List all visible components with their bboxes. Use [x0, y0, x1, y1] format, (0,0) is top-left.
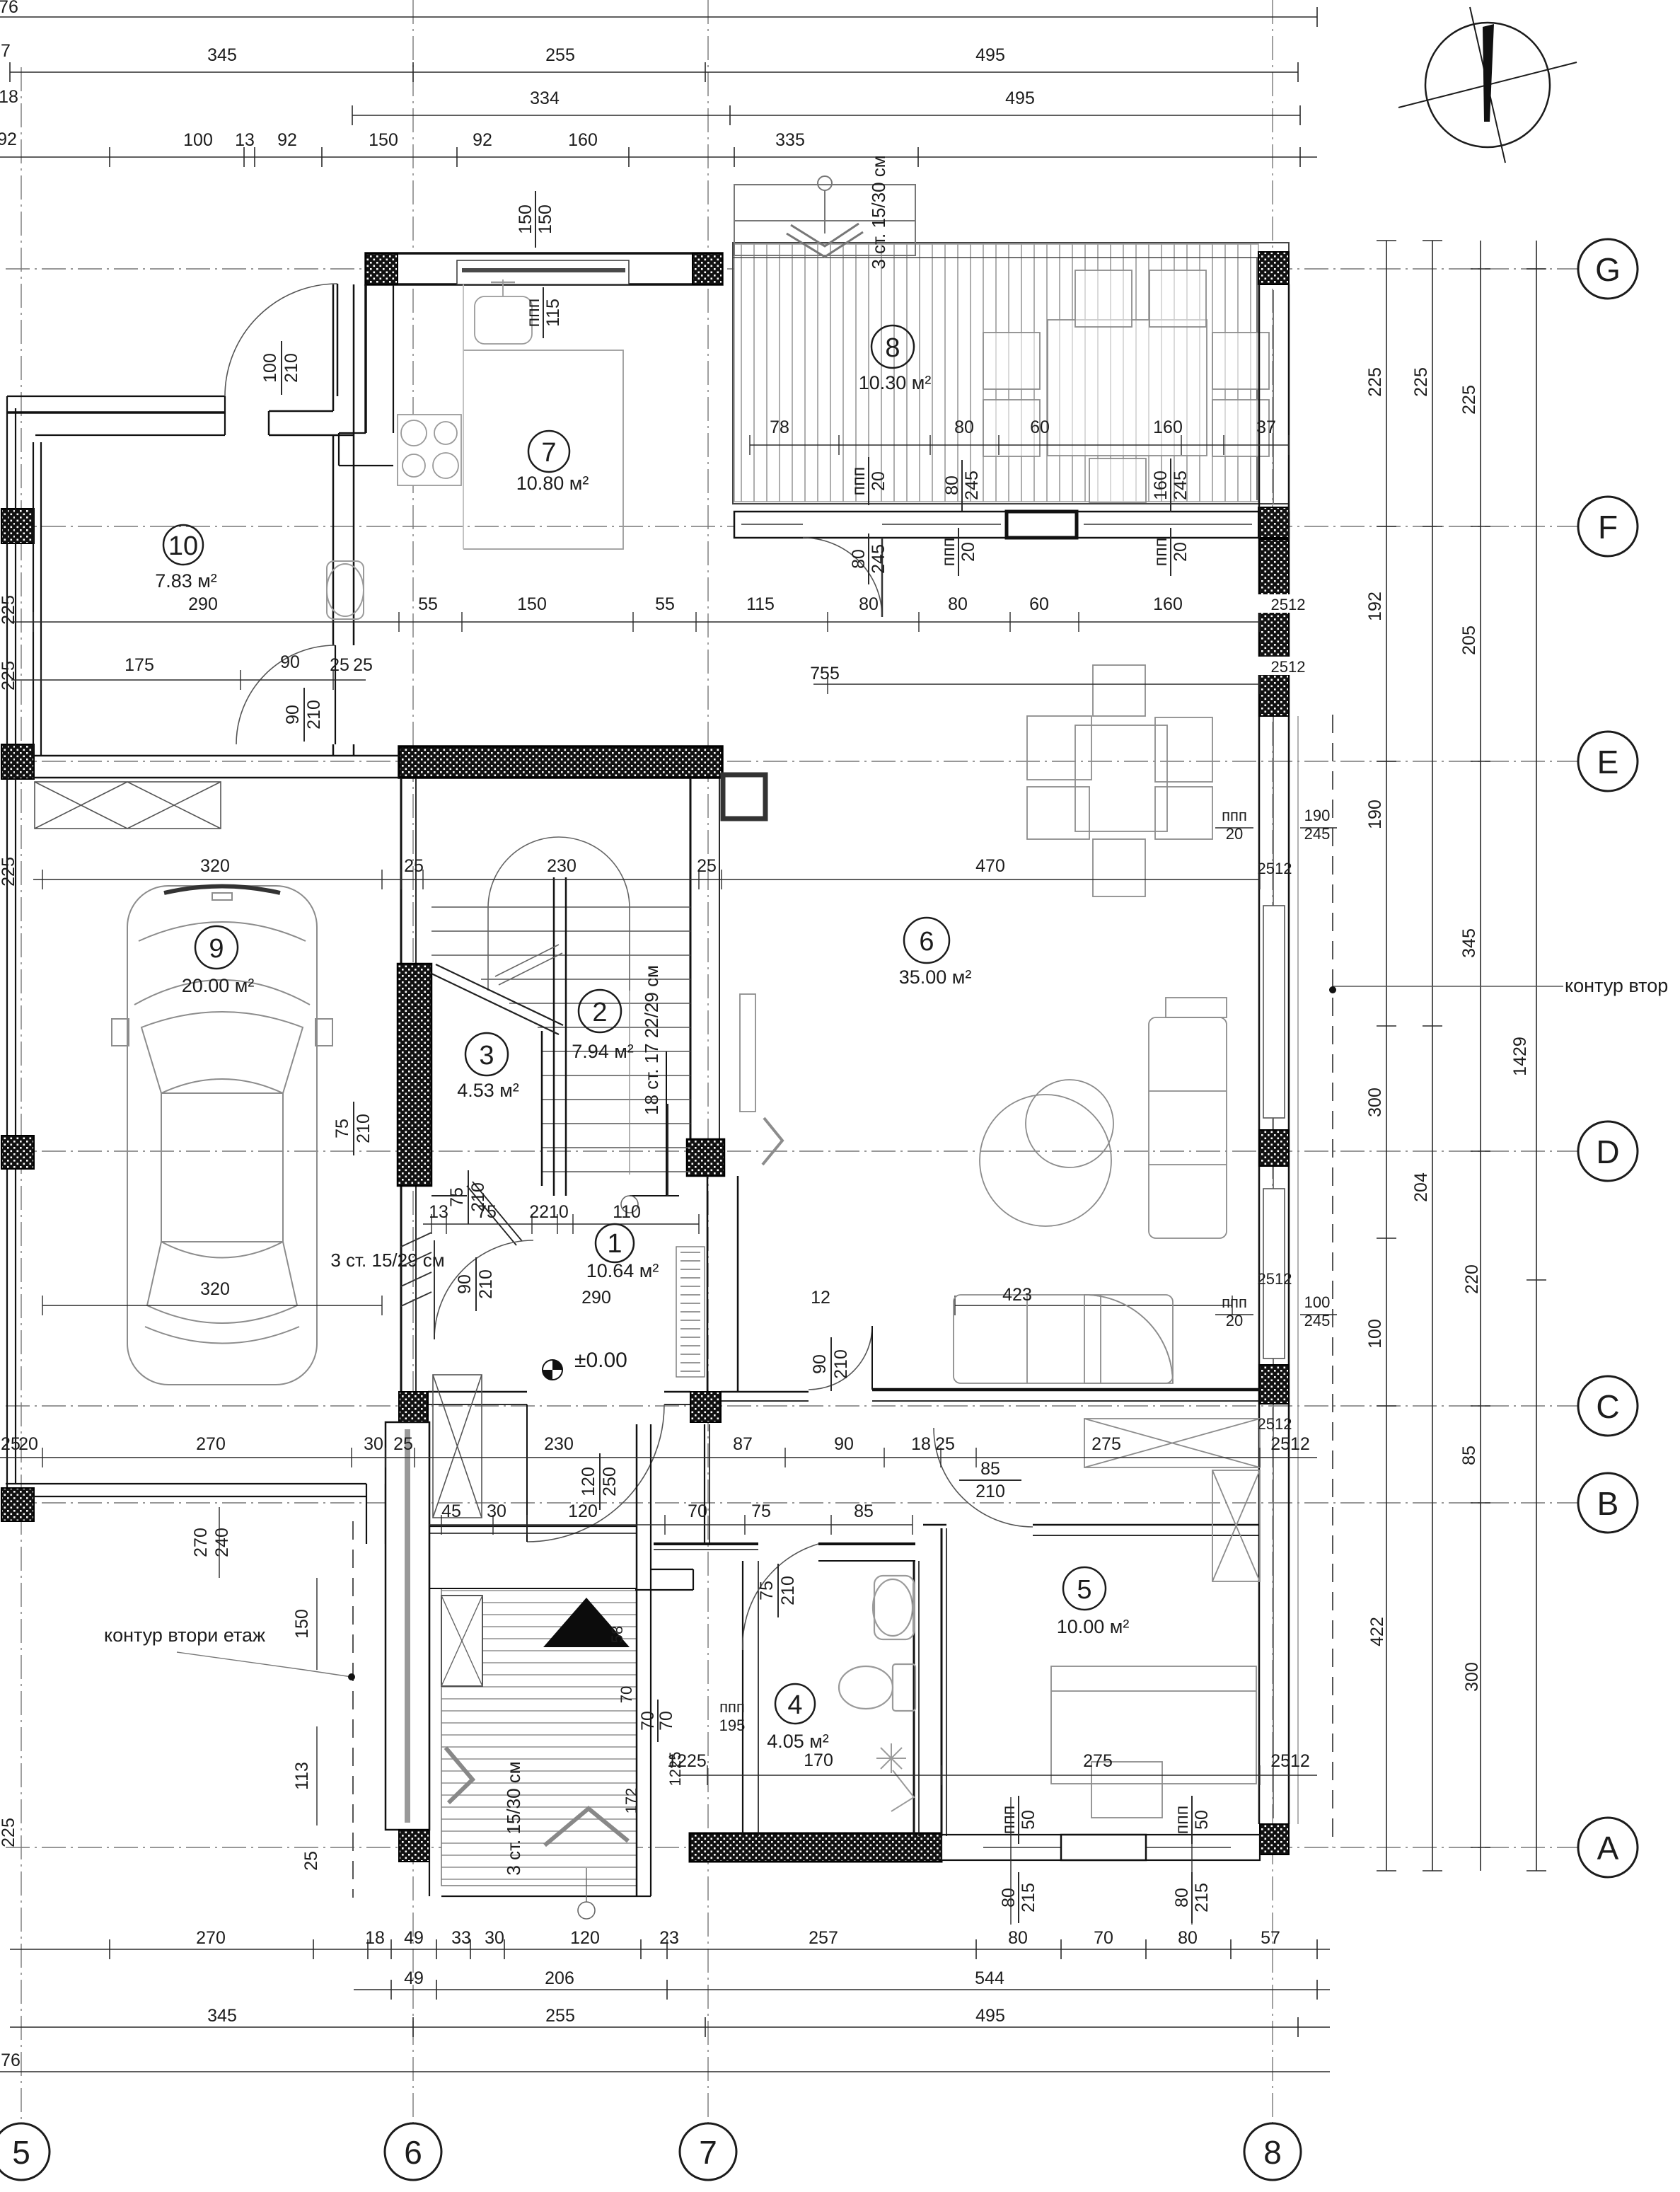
svg-text:13: 13	[429, 1202, 448, 1222]
svg-text:80: 80	[849, 549, 869, 569]
svg-text:C: C	[1596, 1388, 1619, 1425]
canopy over kitchen window	[734, 176, 915, 257]
svg-text:245: 245	[869, 544, 888, 574]
svg-text:4: 4	[787, 1690, 802, 1720]
svg-text:225: 225	[1365, 367, 1385, 397]
svg-text:120: 120	[570, 1928, 600, 1948]
svg-text:1225: 1225	[666, 1752, 684, 1787]
column C7	[690, 1392, 721, 1422]
svg-text:113: 113	[292, 1762, 312, 1790]
column B5 left	[1, 1488, 34, 1521]
svg-text:275: 275	[1083, 1751, 1113, 1771]
svg-text:ппп: ппп	[939, 538, 958, 567]
level mark ±0.00	[543, 1349, 627, 1380]
svg-text:175: 175	[124, 655, 154, 675]
garage north wall	[33, 756, 399, 778]
sofa bottom	[954, 1295, 1173, 1383]
svg-text:25: 25	[404, 856, 424, 876]
bubble C	[1578, 1376, 1638, 1436]
stair mid wall	[553, 877, 555, 1196]
svg-text:210: 210	[831, 1349, 851, 1379]
label 75/210 stair door	[447, 1170, 488, 1224]
stairwell walls	[398, 778, 738, 1392]
tv board	[740, 994, 755, 1112]
svg-text:58: 58	[608, 1626, 626, 1643]
svg-text:115: 115	[543, 299, 563, 327]
svg-text:35.00 м²: 35.00 м²	[899, 967, 972, 988]
svg-text:7: 7	[699, 2134, 717, 2171]
label 90/210 hall west door	[455, 1257, 496, 1311]
landing circle bottom	[578, 1902, 595, 1919]
east column A8	[1260, 1824, 1289, 1854]
wall B carport south	[6, 1484, 386, 1544]
svg-text:3: 3	[479, 1041, 494, 1071]
svg-text:495: 495	[975, 45, 1005, 65]
column F5 left	[1, 509, 34, 543]
kontur vtori etazh left label	[104, 1625, 355, 1680]
vent circle	[818, 176, 832, 190]
svg-text:10: 10	[168, 531, 198, 561]
wall C living south	[399, 1326, 1260, 1542]
svg-text:210: 210	[778, 1576, 798, 1605]
room 8 terrace	[871, 325, 914, 368]
terrace door arc	[803, 538, 882, 617]
east column D8	[1259, 1130, 1289, 1166]
svg-text:250: 250	[600, 1467, 620, 1496]
svg-text:225: 225	[1411, 367, 1431, 397]
sofa 423 dim	[955, 1305, 1232, 1306]
svg-text:ппп: ппп	[1172, 1806, 1192, 1835]
column A6	[399, 1830, 429, 1862]
dining chairs	[1027, 716, 1091, 780]
svg-text:320: 320	[200, 1279, 230, 1299]
svg-text:13: 13	[235, 130, 255, 150]
room3 shelf marks	[495, 945, 559, 976]
svg-text:275: 275	[1091, 1434, 1121, 1454]
svg-text:87: 87	[733, 1434, 753, 1454]
terrace window labels	[849, 457, 888, 505]
svg-text:210: 210	[282, 353, 301, 383]
axis 6 vertical	[412, 0, 414, 2123]
room4 door arc	[743, 1544, 818, 1650]
svg-text:30: 30	[364, 1434, 383, 1454]
svg-text:205: 205	[1459, 625, 1479, 655]
svg-text:2512: 2512	[1271, 658, 1306, 676]
svg-text:160: 160	[1153, 594, 1183, 614]
svg-text:80: 80	[1008, 1928, 1028, 1948]
dim row y2155	[429, 1524, 913, 1525]
corridor step walls	[651, 1569, 693, 1570]
svg-text:70: 70	[656, 1711, 676, 1731]
svg-text:ппп: ппп	[999, 1806, 1019, 1835]
svg-text:45: 45	[441, 1501, 461, 1521]
bubble E	[1578, 732, 1638, 791]
svg-text:90: 90	[283, 705, 303, 725]
axis A	[6, 1847, 1578, 1848]
svg-text:18: 18	[911, 1434, 931, 1454]
room 5	[1063, 1567, 1106, 1610]
axis E	[6, 761, 1578, 762]
room3 door leaf	[467, 1186, 516, 1245]
dim row 755 y967	[813, 683, 1260, 685]
svg-text:8: 8	[1263, 2134, 1282, 2171]
label 90/210 living door	[810, 1337, 851, 1391]
svg-text:210: 210	[476, 1269, 496, 1299]
dim row y2509	[679, 1775, 1317, 1776]
svg-text:110: 110	[613, 1202, 641, 1222]
svg-text:20: 20	[18, 1434, 38, 1454]
svg-text:3 ст. 15/29 см: 3 ст. 15/29 см	[330, 1250, 444, 1271]
crossed beam box left of entry wall	[433, 1375, 482, 1518]
svg-text:6: 6	[919, 927, 934, 957]
svg-text:2512: 2512	[1270, 1434, 1310, 1454]
dim line top row 2	[352, 115, 1300, 116]
svg-text:335: 335	[775, 130, 805, 150]
room10 sink oval	[327, 564, 364, 616]
bubble 7	[680, 2123, 736, 2180]
axis G	[6, 268, 1578, 270]
svg-text:ппп: ппп	[849, 467, 869, 496]
room3 lower partition	[667, 1104, 668, 1196]
deck plank field	[734, 244, 1258, 502]
wall F under terrace	[1, 507, 1289, 617]
svg-text:контур втор: контур втор	[1565, 975, 1668, 996]
svg-text:70: 70	[1094, 1928, 1113, 1948]
svg-text:160: 160	[1151, 471, 1171, 500]
svg-text:470: 470	[975, 856, 1005, 876]
svg-text:12: 12	[811, 1288, 830, 1308]
svg-text:25: 25	[353, 655, 373, 675]
svg-text:80: 80	[954, 417, 974, 437]
svg-text:215: 215	[1192, 1883, 1212, 1913]
coffee table circles	[980, 1095, 1111, 1226]
svg-text:92: 92	[0, 129, 17, 149]
dim line bottom row 1	[10, 1949, 1330, 1950]
svg-text:190: 190	[1304, 807, 1331, 824]
svg-text:3 ст. 15/30 см: 3 ст. 15/30 см	[503, 1761, 524, 1875]
svg-text:49: 49	[404, 1968, 424, 1988]
svg-text:50: 50	[1019, 1810, 1038, 1830]
svg-text:1: 1	[607, 1229, 622, 1259]
svg-text:2210: 2210	[529, 1202, 569, 1222]
svg-text:100: 100	[260, 353, 280, 383]
label 90/210 room10 door	[283, 688, 324, 742]
room 3	[465, 1033, 508, 1075]
svg-text:225: 225	[0, 595, 18, 625]
svg-text:92: 92	[473, 130, 492, 150]
stair west wall	[400, 778, 402, 1392]
column G8	[1258, 252, 1289, 284]
svg-text:10.30 м²: 10.30 м²	[859, 372, 932, 393]
svg-text:195: 195	[719, 1717, 746, 1734]
axis 8 vertical	[1272, 0, 1273, 2123]
svg-text:206: 206	[545, 1968, 574, 1988]
svg-text:2: 2	[592, 998, 607, 1027]
stair east wall	[690, 778, 692, 1139]
dim row D stair y1730	[423, 1223, 699, 1225]
svg-text:100: 100	[1365, 1319, 1385, 1349]
svg-text:2512: 2512	[1258, 1415, 1292, 1433]
stair arch opening	[488, 837, 630, 991]
svg-text:75: 75	[447, 1187, 467, 1207]
svg-text:ппп: ппп	[719, 1698, 745, 1716]
hatched wall A room4	[690, 1833, 942, 1862]
svg-text:18: 18	[0, 87, 18, 107]
svg-text:18 ст. 17 22/29 см: 18 ст. 17 22/29 см	[641, 965, 662, 1115]
dim row under C y2060	[0, 1457, 1317, 1458]
column D5 left	[1, 1136, 34, 1169]
toilet	[839, 1664, 915, 1711]
svg-text:225: 225	[0, 857, 18, 887]
svg-text:60: 60	[1030, 417, 1050, 437]
column G6	[366, 253, 398, 284]
svg-text:30: 30	[485, 1928, 504, 1948]
svg-text:544: 544	[975, 1968, 1004, 1988]
dim line top row 0	[0, 16, 1317, 18]
svg-text:270: 270	[196, 1928, 226, 1948]
step chevron arrow	[791, 224, 859, 246]
svg-text:50: 50	[1192, 1810, 1212, 1830]
svg-text:150: 150	[369, 130, 398, 150]
svg-text:225: 225	[0, 1434, 21, 1454]
wardrobe crossed side	[1212, 1470, 1260, 1581]
label 150/150 top	[516, 191, 555, 248]
east hatched pier F-E	[1259, 539, 1289, 716]
svg-text:270: 270	[196, 1434, 226, 1454]
svg-text:150: 150	[535, 204, 555, 234]
svg-text:33: 33	[451, 1928, 471, 1948]
room5 west wall	[941, 1528, 943, 1836]
dim line bottom row 4	[0, 2071, 1330, 2072]
svg-text:150: 150	[517, 594, 547, 614]
stair west hatched pier	[398, 964, 431, 1186]
svg-text:495: 495	[975, 2006, 1005, 2026]
axis 5 vertical	[21, 67, 22, 2123]
axis B	[6, 1502, 1578, 1504]
svg-text:37: 37	[1256, 417, 1276, 437]
svg-text:25: 25	[301, 1851, 321, 1871]
svg-text:90: 90	[810, 1354, 830, 1374]
column D7	[687, 1139, 724, 1176]
svg-text:18: 18	[365, 1928, 385, 1948]
svg-text:2512: 2512	[1258, 1270, 1292, 1288]
svg-text:B: B	[1597, 1485, 1619, 1522]
svg-text:±0.00: ±0.00	[574, 1349, 627, 1372]
terrace chairs	[983, 333, 1040, 389]
svg-text:75: 75	[757, 1581, 777, 1600]
dim line bottom row 2	[354, 1989, 1330, 1990]
bubble A	[1578, 1818, 1638, 1877]
axis bubbles bottom	[0, 2123, 1301, 2180]
bubble D	[1578, 1121, 1638, 1181]
svg-text:20: 20	[958, 542, 978, 562]
room5 north wall and door	[923, 1428, 1260, 1535]
contour right vertical	[1332, 715, 1333, 1847]
svg-text:25: 25	[935, 1434, 955, 1454]
label 75/210 room4 door	[757, 1564, 798, 1617]
black direction triangle	[543, 1598, 630, 1647]
svg-text:190: 190	[1365, 800, 1385, 829]
room4 top wall	[818, 1542, 915, 1545]
svg-text:55: 55	[655, 594, 675, 614]
room3 east wall	[541, 1031, 543, 1186]
svg-text:6: 6	[404, 2134, 422, 2171]
svg-text:75: 75	[332, 1119, 352, 1138]
svg-text:1429: 1429	[1510, 1037, 1530, 1076]
svg-text:225: 225	[0, 1818, 18, 1847]
door C hall arc	[527, 1404, 664, 1542]
dim row under kitchen y880	[11, 621, 1260, 623]
interior wall kitchen/room10	[333, 284, 393, 466]
svg-text:78: 78	[770, 417, 789, 437]
svg-text:92: 92	[277, 130, 297, 150]
svg-text:257: 257	[809, 1928, 838, 1948]
svg-text:495: 495	[1005, 88, 1035, 108]
right chain line 1	[1386, 241, 1387, 1871]
east hatched pier C	[1259, 1365, 1289, 1404]
svg-text:70: 70	[618, 1686, 635, 1703]
chevron marker left	[446, 1748, 473, 1803]
svg-text:30: 30	[487, 1501, 506, 1521]
svg-text:755: 755	[810, 664, 840, 683]
svg-text:210: 210	[468, 1182, 488, 1212]
kitchen west wall	[332, 284, 335, 411]
label 120/250 hall door	[579, 1453, 620, 1510]
east window C frame	[1263, 1189, 1285, 1359]
svg-text:контур втори етаж: контур втори етаж	[104, 1625, 265, 1646]
entry stair treads field	[441, 1588, 637, 1886]
svg-text:4.53 м²: 4.53 м²	[457, 1080, 519, 1101]
svg-text:E: E	[1597, 744, 1619, 780]
dim row garage 320 y1845	[42, 1305, 382, 1306]
stove burners	[398, 415, 461, 485]
roof	[161, 1093, 283, 1242]
stair bottom landing lines	[629, 991, 630, 1175]
entry porch walls top-left	[7, 284, 354, 435]
kitchen window in G wall	[457, 260, 629, 284]
hall east wall	[707, 1176, 709, 1392]
dim line top row 3	[0, 156, 1317, 158]
wardrobe crossed top	[1084, 1419, 1260, 1467]
svg-text:120: 120	[568, 1501, 598, 1521]
dark window frame in F wall	[1007, 512, 1077, 538]
svg-text:210: 210	[354, 1114, 373, 1143]
stair treads lower right	[542, 1051, 690, 1052]
svg-text:70: 70	[638, 1711, 658, 1731]
east wall 2512 labels	[1258, 594, 1290, 613]
svg-text:90: 90	[455, 1274, 475, 1294]
svg-text:10.80 м²: 10.80 м²	[516, 473, 589, 494]
contour left vertical	[352, 1521, 354, 1898]
svg-text:225: 225	[1459, 385, 1479, 415]
svg-text:160: 160	[1153, 417, 1183, 437]
right chain line 3	[1480, 241, 1481, 1871]
svg-text:5: 5	[12, 2134, 30, 2171]
rear window	[147, 1242, 297, 1323]
svg-text:245: 245	[1171, 471, 1191, 500]
svg-text:20: 20	[869, 471, 888, 491]
svg-text:7: 7	[541, 438, 556, 468]
svg-text:7: 7	[1, 41, 11, 61]
window band A room5	[942, 1835, 1260, 1860]
kontur vtori etazh right label	[1329, 975, 1668, 996]
terrace dining table	[983, 270, 1269, 502]
bubble G	[1578, 239, 1638, 299]
svg-text:4.05 м²: 4.05 м²	[767, 1731, 829, 1752]
column F8	[1258, 507, 1289, 538]
deck outline	[733, 243, 1289, 504]
svg-text:255: 255	[545, 2006, 575, 2026]
east window D frame	[1263, 906, 1285, 1118]
right chain line 2	[1432, 241, 1433, 1871]
svg-text:160: 160	[568, 130, 598, 150]
svg-text:245: 245	[962, 471, 982, 500]
compass north arrow	[1398, 7, 1577, 163]
room4 east wall	[913, 1561, 915, 1836]
svg-text:255: 255	[545, 45, 575, 65]
svg-text:49: 49	[404, 1928, 424, 1948]
axis 7 vertical	[707, 0, 709, 2123]
mirrors	[112, 1019, 129, 1046]
room 2 stairs	[579, 990, 621, 1032]
bathroom sink	[873, 1576, 914, 1639]
svg-text:80: 80	[999, 1888, 1019, 1908]
svg-text:57: 57	[1261, 1928, 1280, 1948]
svg-text:85: 85	[1459, 1446, 1479, 1465]
hall 3 steps	[401, 1233, 431, 1247]
svg-text:25: 25	[393, 1434, 413, 1454]
entry stair side walls	[636, 1424, 638, 1896]
svg-text:8: 8	[885, 333, 900, 363]
sofa L	[1149, 1017, 1227, 1238]
svg-text:320: 320	[200, 856, 230, 876]
car body	[127, 886, 317, 1385]
svg-text:230: 230	[544, 1434, 574, 1454]
label ппп/115 kitchen	[523, 287, 563, 338]
svg-text:290: 290	[188, 594, 218, 614]
svg-text:210: 210	[975, 1482, 1005, 1501]
room 9 garage	[195, 926, 238, 969]
deck top edge line	[733, 257, 1289, 258]
bed	[1051, 1666, 1256, 1784]
svg-text:345: 345	[207, 45, 237, 65]
svg-text:76: 76	[0, 0, 18, 17]
shower symbol	[876, 1743, 914, 1811]
svg-text:80: 80	[942, 475, 962, 495]
room5 door arc	[934, 1428, 1033, 1527]
svg-text:204: 204	[1411, 1172, 1431, 1202]
garage west wall	[1, 396, 41, 1521]
room4 west wall	[742, 1561, 743, 1836]
bottom window labels	[999, 1796, 1038, 1844]
bedside rug	[1091, 1762, 1162, 1818]
svg-text:230: 230	[547, 856, 577, 876]
bubble B	[1578, 1473, 1638, 1533]
svg-text:290: 290	[581, 1288, 611, 1308]
label 75/210 room3	[332, 1102, 373, 1155]
svg-text:10.00 м²: 10.00 м²	[1057, 1616, 1130, 1637]
svg-text:F: F	[1598, 509, 1618, 546]
svg-text:76: 76	[1, 2050, 21, 2070]
svg-text:3 ст. 15/30 см: 3 ст. 15/30 см	[868, 155, 889, 269]
carport crossed beams at E	[35, 782, 221, 829]
svg-text:150: 150	[516, 204, 535, 234]
wall between room10 and kitchen	[364, 284, 367, 433]
room10 east wall and door	[236, 435, 354, 756]
svg-text:334: 334	[530, 88, 560, 108]
svg-text:75: 75	[751, 1501, 771, 1521]
svg-text:25: 25	[697, 856, 717, 876]
